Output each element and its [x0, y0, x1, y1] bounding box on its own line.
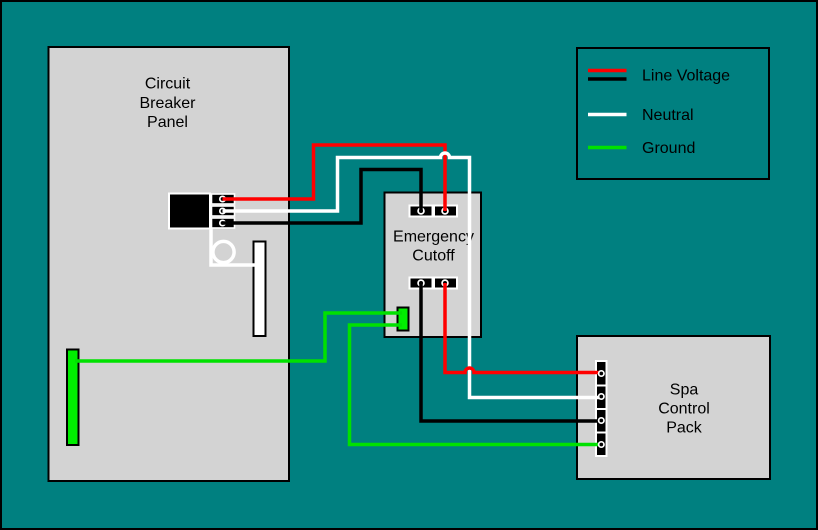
svg-text:Neutral: Neutral: [642, 107, 694, 124]
svg-text:Spa: Spa: [670, 382, 699, 399]
ground lug on emergency cutoff: [398, 308, 409, 331]
cutoff top screw left: [418, 208, 424, 214]
legend neutral white sample: [588, 113, 627, 117]
spa terminal screw 4 (green): [599, 442, 604, 447]
circuit breaker panel enclosure: [49, 47, 290, 481]
wire white neutral: breaker to spa pack (hop over red): [223, 153, 602, 398]
cutoff bottom terminal right: [434, 278, 457, 289]
breaker terminal 2 (white): [212, 206, 235, 216]
spa terminal screw 2 (white): [599, 394, 604, 399]
svg-text:Pack: Pack: [666, 420, 703, 437]
wire white neutral pigtail coil loop: [213, 241, 234, 262]
cutoff top screw right: [442, 208, 448, 214]
svg-text:Breaker: Breaker: [139, 95, 196, 112]
emergency cutoff enclosure: [385, 193, 482, 338]
breaker terminal screw 3: [220, 220, 225, 225]
wire white neutral pigtail vertical: [211, 228, 258, 265]
legend line-voltage red sample: [588, 69, 627, 73]
spa terminal screw 3 (black): [599, 418, 604, 423]
breaker terminal 1 (red): [212, 194, 235, 204]
wire red line-voltage: cutoff bottom to spa pack (hop over white): [445, 283, 601, 373]
breaker terminal screw 2: [220, 208, 225, 213]
cutoff top terminal left: [410, 206, 433, 217]
neutral bus bar: [254, 242, 266, 337]
label Circuit Breaker Panel: [139, 76, 196, 132]
spa control pack enclosure: [577, 336, 770, 479]
breaker body: [169, 194, 210, 229]
wire green ground: busbar to cutoff lug: [75, 313, 402, 361]
svg-text:Emergency: Emergency: [393, 229, 474, 246]
spa terminal gap 3: [595, 432, 608, 434]
wire black line-voltage: breaker to cutoff top: [223, 170, 422, 224]
label Emergency Cutoff: [393, 229, 474, 265]
svg-text:Panel: Panel: [147, 114, 188, 131]
wire green ground: cutoff lug to spa pack: [350, 325, 602, 445]
legend ground green sample: [588, 146, 627, 150]
spa terminal strip: [596, 361, 607, 456]
svg-text:Cutoff: Cutoff: [412, 248, 455, 265]
spa terminal gap 1: [595, 385, 608, 387]
breaker terminal 3 (black): [212, 218, 235, 228]
cutoff bottom terminal left: [410, 278, 433, 289]
spa terminal gap 2: [595, 408, 608, 410]
cutoff bottom screw left: [418, 280, 424, 286]
breaker terminal screw 1: [220, 196, 225, 201]
svg-text:Line Voltage: Line Voltage: [642, 68, 730, 85]
svg-text:Circuit: Circuit: [145, 76, 191, 93]
svg-text:Ground: Ground: [642, 140, 695, 157]
ground bus bar: [67, 350, 79, 446]
legend box: [577, 48, 769, 179]
wire red line-voltage: breaker to cutoff top: [223, 145, 446, 211]
spa terminal screw 1 (red): [599, 371, 604, 376]
legend line-voltage black sample: [588, 77, 627, 81]
cutoff bottom screw right: [442, 280, 448, 286]
wire black line-voltage: cutoff bottom to spa pack: [421, 283, 601, 421]
label Spa Control Pack: [658, 382, 710, 437]
cutoff top terminal right: [434, 206, 457, 217]
svg-text:Control: Control: [658, 401, 710, 418]
